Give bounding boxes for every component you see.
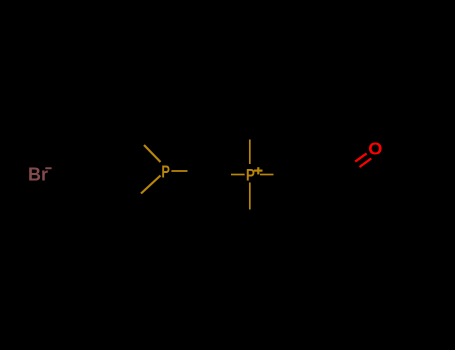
svg-text:Br: Br bbox=[28, 165, 48, 185]
bond CH2-P2 (left stub into P+) bbox=[231, 174, 245, 176]
svg-text:O: O bbox=[368, 139, 382, 159]
bond P1-CH2 (right) bbox=[171, 170, 187, 172]
bond P2-C (down vertical) bbox=[249, 183, 251, 210]
carbonyl C=O double bond line 2 bbox=[360, 159, 372, 168]
carbonyl C=O double bond line 1 bbox=[355, 153, 366, 161]
bond P2-C (up vertical) bbox=[249, 140, 251, 165]
atom label P+ (phosphonium P2) bbox=[246, 166, 263, 185]
bond P1-C phenyl (down-left) bbox=[141, 176, 161, 194]
bond P2-CH2 (right stub) bbox=[260, 174, 274, 176]
svg-text:P: P bbox=[246, 166, 255, 185]
svg-text:P: P bbox=[161, 163, 170, 182]
bromide ion Br- bbox=[28, 165, 52, 185]
bond P1-C phenyl (up-left) bbox=[144, 145, 161, 162]
